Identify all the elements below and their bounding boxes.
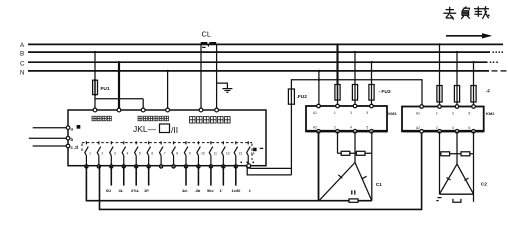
svg-text:1: 1 <box>436 112 438 116</box>
wire CT secondary lead S2 <box>216 44 218 108</box>
wire from FU1 to controller terminal <box>94 95 96 109</box>
wire drop bus A to FU4a <box>439 44 441 85</box>
wire KM2 T2 down to capacitor apex <box>456 131 458 164</box>
svg-text:4: 4 <box>452 126 454 130</box>
controller bottom stub terminal 13 <box>235 166 237 186</box>
KM1 bottom terminal T2 <box>353 130 357 134</box>
bracket below C2 base <box>453 199 461 203</box>
controller bottom stub terminal 3 <box>110 166 112 186</box>
svg-text:5: 5 <box>139 151 141 155</box>
svg-text:6: 6 <box>469 126 471 130</box>
controller bottom stub terminal 6 <box>148 166 150 186</box>
resistor R2b <box>461 152 470 156</box>
model blank square <box>160 124 170 133</box>
fuse FU3c <box>369 85 374 101</box>
controller left terminal c with stub wire <box>33 145 68 147</box>
svg-text:- FU3: - FU3 <box>379 89 391 95</box>
wire KM2 T1 down to capacitor left vertex <box>439 131 441 194</box>
relay contact K6 bottom terminal <box>147 165 150 168</box>
wire bus C dotted continuation <box>490 62 498 64</box>
junction on bus B <box>94 51 96 53</box>
KM2 terminal pin labels <box>416 112 471 131</box>
wire drop bus B to FU3b <box>354 52 356 84</box>
relay contact K3 <box>110 141 114 165</box>
capacitor plate tick on C1 right leg <box>362 176 366 178</box>
svg-text:1x30: 1x30 <box>232 188 242 193</box>
svg-text:6: 6 <box>367 126 369 130</box>
relay contact K9 bottom terminal <box>184 165 187 168</box>
relay contact K8 <box>172 141 176 165</box>
wire bus B <box>28 51 490 53</box>
marker filled square at relay group right <box>253 148 257 152</box>
svg-text:3: 3 <box>350 111 352 115</box>
svg-text:1F.: 1F. <box>144 188 149 193</box>
wire bus C <box>28 61 488 63</box>
KM2 top terminal L3 <box>472 105 476 109</box>
svg-text:5: 5 <box>367 111 369 115</box>
relay contact K2 <box>97 141 101 165</box>
marker dash at relay group right <box>260 147 263 149</box>
KM2 top terminal L2 <box>455 105 459 109</box>
relay contact K12 <box>222 141 226 165</box>
wire bus N dashed continuation <box>492 70 507 72</box>
wire drop bus C to FU3c <box>371 62 373 84</box>
capacitor symbol marks above C1 base <box>352 190 355 194</box>
fuse FU4c <box>471 86 476 103</box>
svg-text:3: 3 <box>452 112 454 116</box>
svg-text:4: 4 <box>126 151 128 155</box>
controller bottom stub terminal 9 <box>185 166 187 186</box>
relay contact K9 <box>184 141 188 165</box>
svg-text:A2: A2 <box>416 126 420 130</box>
wire KM1 T1 down to discharge resistors <box>337 131 339 153</box>
svg-text:JKL—: JKL— <box>133 124 157 134</box>
KM1 top terminal L2 <box>353 104 357 108</box>
wire ground tap from S2 <box>217 83 228 88</box>
tick below C2 left vertex <box>438 197 442 199</box>
svg-text:5: 5 <box>469 112 471 116</box>
controller U1 box JKL reactive power compensation controller <box>68 110 266 166</box>
controller bottom stub terminal 5 <box>135 166 137 186</box>
svg-text:C: C <box>20 61 25 68</box>
ground <box>222 89 232 93</box>
relay contact K11 bottom terminal <box>209 165 212 168</box>
wire drop bus B to FU4b <box>456 52 458 85</box>
svg-text:6: 6 <box>151 151 153 155</box>
labels under controller bottom stubs <box>99 188 251 193</box>
controller top terminal 3 <box>141 108 145 112</box>
svg-text:N: N <box>20 70 25 77</box>
controller bottom long wire from terminal 2 to rail2 feeding KM2 coil <box>100 131 422 209</box>
svg-text:2%L: 2%L <box>131 188 140 193</box>
svg-text:CL: CL <box>202 30 212 39</box>
KM1 bottom terminal T3 <box>370 130 374 134</box>
relay contact K12 bottom terminal <box>222 165 225 168</box>
wire KM1 T2 down to capacitor apex <box>354 131 356 162</box>
capacitor plate tick on C2 left leg <box>447 178 451 181</box>
fuse FU1 <box>93 80 98 94</box>
wire KM1 T3 down to capacitor right vertex <box>371 131 373 200</box>
wire link node at y99 <box>95 98 143 100</box>
svg-text:A1: A1 <box>416 112 420 116</box>
wire bus N <box>28 70 489 72</box>
wire fused N down to supply taps <box>290 104 292 175</box>
resistor R1a <box>341 151 350 155</box>
svg-text:b: b <box>71 137 74 142</box>
relay contact K11 <box>209 141 213 165</box>
element box on C1 base <box>349 199 358 202</box>
svg-text:C1: C1 <box>376 182 382 188</box>
KM2 top terminal L1 <box>438 105 442 109</box>
relay contact K2 bottom terminal <box>97 165 100 168</box>
KM1 top terminal L3 <box>370 104 374 108</box>
svg-text:4d.: 4d. <box>182 188 188 193</box>
svg-text:1: 1 <box>89 151 91 155</box>
svg-text:-F: -F <box>486 89 490 94</box>
svg-text:4: 4 <box>350 126 352 130</box>
controller left terminal a with stub wire <box>33 127 68 129</box>
svg-text:7: 7 <box>164 151 166 155</box>
svg-text:.FU2: .FU2 <box>297 94 308 100</box>
wire KM1 coil A2 down to rail1 <box>318 131 320 200</box>
relay contact K4 <box>122 141 126 165</box>
wire drop from bus C to controller (thick) <box>118 62 120 108</box>
label 电流取样输入 current sampling (smudge) <box>190 117 231 123</box>
svg-text:11: 11 <box>214 151 218 155</box>
svg-text:.3b: .3b <box>195 188 201 193</box>
dashed box bottom dots <box>241 162 255 164</box>
KM1 bottom terminal T1 <box>336 130 340 134</box>
wire KM2 T3 down past capacitor right vertex <box>473 131 475 202</box>
svg-text:.: . <box>99 188 100 193</box>
svg-text:a: a <box>71 127 74 132</box>
KM2 bottom terminal T1 <box>438 130 442 134</box>
marker filled square inside controller <box>77 125 81 129</box>
controller bottom stub terminal 10 <box>197 166 199 186</box>
KM2 top terminal coil A1 <box>420 105 424 109</box>
relay contact K7 <box>160 141 164 165</box>
discharge resistor line KM2 <box>440 153 474 155</box>
relay contact K1 <box>85 141 89 165</box>
KM2 bottom terminal T3 <box>472 130 476 134</box>
label 电压取样 voltage sampling (smudge) <box>92 116 111 121</box>
fuse FU4b <box>454 86 459 103</box>
svg-text:C2: C2 <box>481 182 487 188</box>
svg-text:1': 1' <box>220 188 223 193</box>
controller top terminal 1 <box>93 108 97 112</box>
relay contact K14 <box>247 141 251 165</box>
wire bus A <box>28 43 503 45</box>
junction at rail crossing <box>318 79 320 81</box>
current transformer CL on bus A <box>201 42 217 47</box>
svg-text:10: 10 <box>201 151 205 155</box>
controller top terminal 2 <box>117 108 121 112</box>
contactor KM1 box <box>306 106 387 131</box>
discharge resistor line KM1 <box>338 152 372 154</box>
KM2 bottom terminal coil A2 <box>420 130 424 134</box>
capacitor plate tick on C1 left leg <box>338 175 342 179</box>
relay contact K10 <box>197 141 201 165</box>
svg-text:8: 8 <box>176 151 178 155</box>
controller left terminal b with stub wire <box>29 137 68 139</box>
label 无功补偿控制 (smudge) <box>138 116 169 121</box>
wire N drop to coil rail <box>318 71 320 106</box>
svg-text:c Jl: c Jl <box>71 145 79 150</box>
junction on bus N at coil drop <box>318 70 320 72</box>
wire drop link to controller terminal 3 <box>142 99 144 109</box>
relay contact K6 <box>147 141 151 165</box>
relay contact K13 bottom terminal <box>234 165 237 168</box>
relay contact K5 <box>135 141 139 165</box>
junction on bus C <box>118 61 120 63</box>
svg-text:9: 9 <box>189 151 191 155</box>
svg-text:KM1: KM1 <box>388 111 397 116</box>
wire drop from bus N to controller <box>167 71 169 108</box>
wire drop bus C to FU4c <box>473 62 475 85</box>
svg-text:6U: 6U <box>106 188 111 193</box>
resistor R1b <box>356 151 365 155</box>
svg-text:KM2: KM2 <box>486 111 495 116</box>
wire drop bus A to FU3a (thick) <box>336 44 338 84</box>
wire coil supply rail y80 <box>291 80 422 107</box>
relay contact K3 bottom terminal <box>110 165 113 168</box>
relay contact K1 bottom terminal <box>85 165 88 168</box>
capacitor bank C1 delta <box>319 163 372 201</box>
relay contact K10 bottom terminal <box>197 165 200 168</box>
contactor KM2 box <box>402 107 484 132</box>
controller bottom stub terminal 12 <box>222 166 224 186</box>
svg-text:2: 2 <box>102 151 104 155</box>
svg-text:A2: A2 <box>313 126 317 130</box>
fuse FU2 on coil supply <box>288 89 294 104</box>
KM1 terminal pin labels <box>313 111 369 130</box>
dashed relay output group box <box>82 143 252 160</box>
supply stub terminal bump <box>247 164 251 168</box>
svg-text:2: 2 <box>436 126 438 130</box>
controller bottom stub terminal 4 <box>123 166 125 186</box>
svg-text:l:: l: <box>249 188 251 193</box>
fuse FU3a <box>335 85 340 101</box>
svg-text:A: A <box>20 42 25 49</box>
relay contact K14 bottom terminal <box>247 165 250 168</box>
svg-text:/II: /II <box>171 125 178 135</box>
svg-text:2: 2 <box>334 126 336 130</box>
relay contact K13 <box>234 141 238 165</box>
controller top terminal 5 <box>199 108 203 112</box>
KM1 top terminal coil A1 <box>317 104 321 108</box>
arrow to load <box>446 33 492 38</box>
KM1 bottom terminal coil A2 <box>317 130 321 134</box>
wire CT secondary lead S1 <box>200 44 202 108</box>
svg-text:B: B <box>20 51 24 58</box>
svg-text:1: 1 <box>334 111 336 115</box>
relay contact K7 bottom terminal <box>159 165 162 168</box>
resistor R2a <box>441 152 450 156</box>
controller bottom long wire from terminal 1 to rail1 <box>86 166 371 201</box>
controller bottom stub terminal 11 <box>210 166 212 186</box>
controller top terminal 4 <box>166 108 170 112</box>
svg-text:FU1: FU1 <box>101 86 110 92</box>
relay contact K5 bottom terminal <box>135 165 138 168</box>
controller top terminal 6 <box>215 108 219 112</box>
svg-text:3: 3 <box>114 151 116 155</box>
svg-text:4L: 4L <box>119 188 124 193</box>
relay contact K8 bottom terminal <box>172 165 175 168</box>
fuse FU3b <box>352 85 357 101</box>
capacitor bank C2 delta <box>439 164 473 194</box>
relay contacts K1..K14 inside controller <box>85 141 255 168</box>
capacitor plate tick on C2 right leg <box>465 178 469 181</box>
tick below C2 left vertex lower <box>436 200 438 202</box>
svg-text:14: 14 <box>251 151 255 155</box>
svg-text:12: 12 <box>226 151 230 155</box>
wire drop from bus B to fuse FU1 <box>94 52 96 80</box>
controller supply wire lower to fused N <box>247 166 291 175</box>
KM2 bottom terminal T2 <box>455 130 459 134</box>
junction on bus N <box>166 70 168 72</box>
svg-text:A1: A1 <box>313 111 317 115</box>
svg-text:13: 13 <box>239 151 243 155</box>
wire bus B dotted continuation <box>493 51 504 53</box>
fuse FU4a <box>437 86 442 103</box>
label 去负载 (to load), drawn as vector strokes <box>443 6 489 19</box>
relay contact K4 bottom terminal <box>122 165 125 168</box>
svg-text:9kc: 9kc <box>207 188 214 193</box>
controller supply wire upper to fused N <box>250 166 291 169</box>
KM1 top terminal L1 <box>336 104 340 108</box>
